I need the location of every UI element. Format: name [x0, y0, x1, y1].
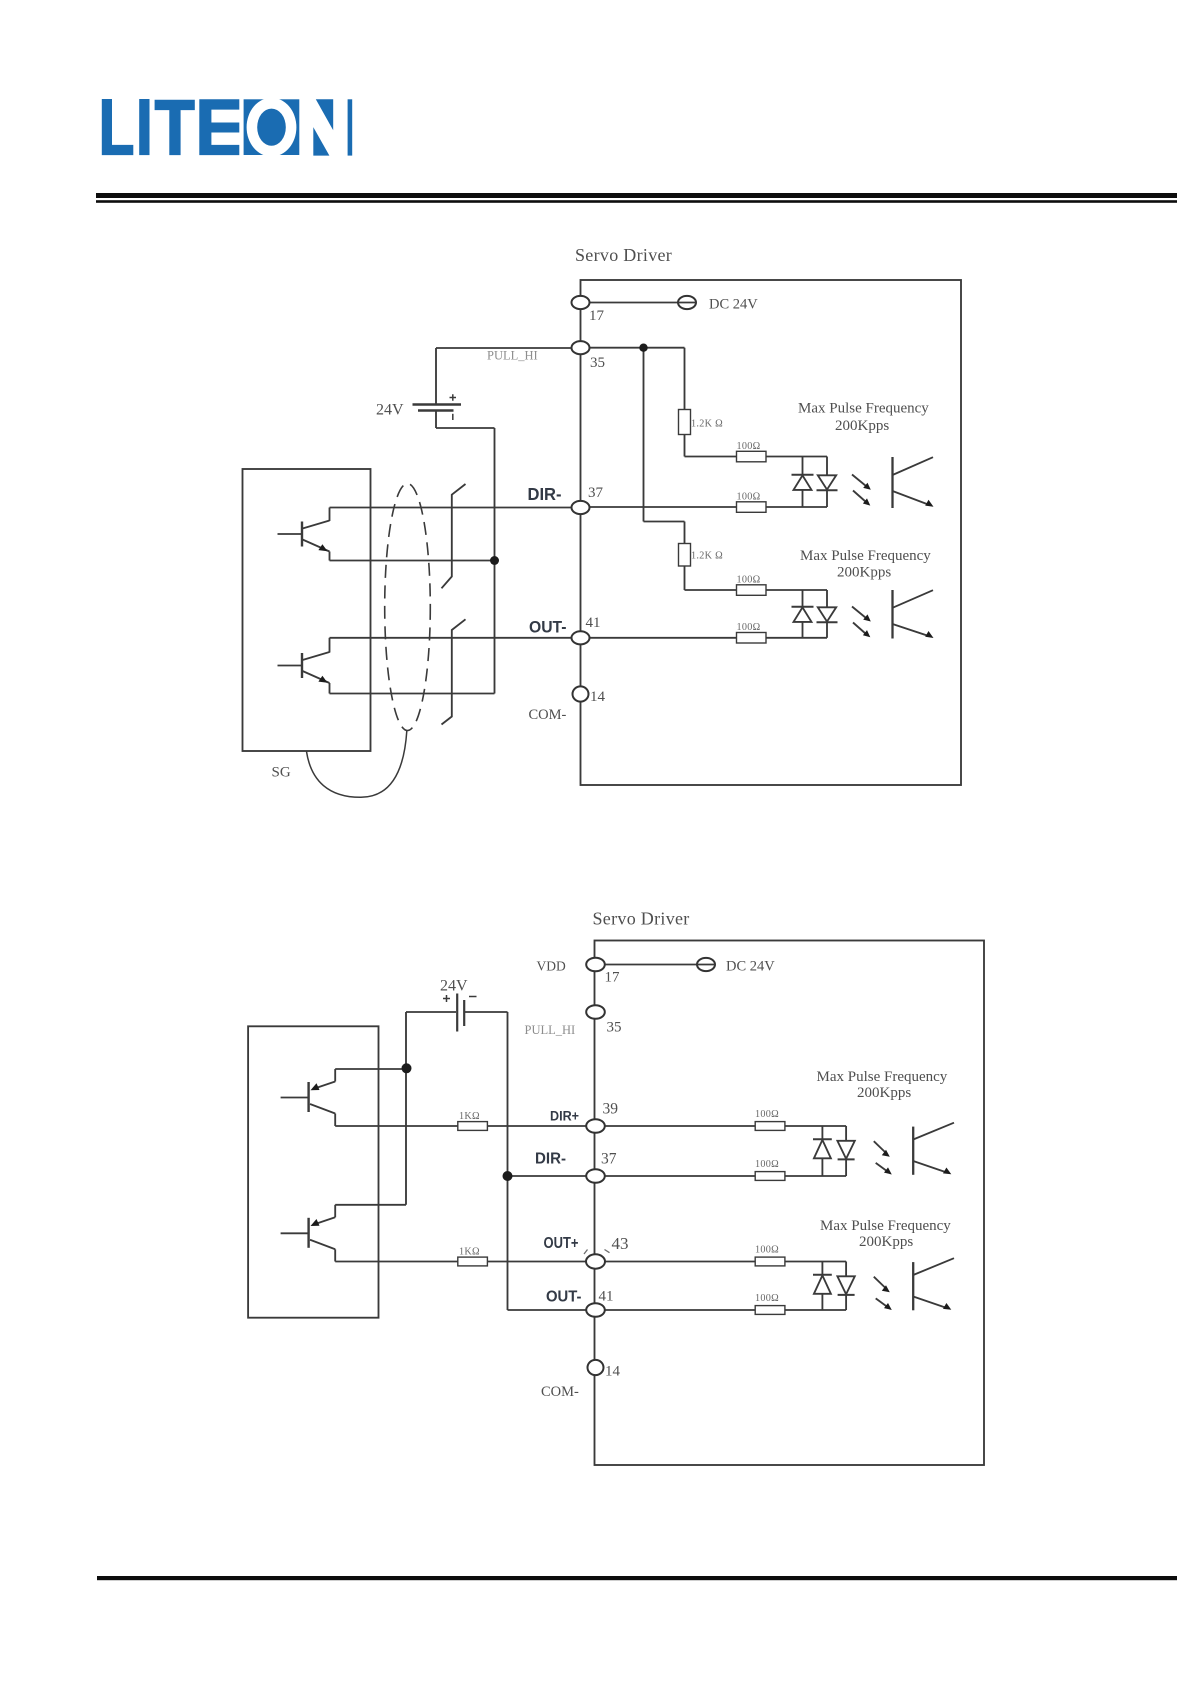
- svg-text:24V: 24V: [376, 402, 404, 419]
- wire P1 collector to R7: [335, 1125, 458, 1127]
- svg-text:DIR-: DIR-: [528, 484, 562, 504]
- svg-text:35: 35: [590, 355, 605, 371]
- svg-text:100Ω: 100Ω: [755, 1109, 779, 1120]
- wire OUT- right: [590, 637, 737, 639]
- wire node35 branch down: [643, 348, 645, 522]
- battery 24V (bottom) short plate: [463, 1000, 465, 1026]
- DC 24V source symbol chord: [678, 302, 696, 304]
- header double rule: [96, 193, 1177, 198]
- wire battery - down: [435, 411, 437, 429]
- svg-text:41: 41: [586, 615, 601, 631]
- junction dot P1 emitter node: [402, 1063, 412, 1073]
- transistor P1 (source driver): [281, 1097, 309, 1099]
- wire R4 to corner: [684, 566, 686, 590]
- resistor R6 100Ω: [737, 633, 767, 644]
- terminal pin 35 (bottom): [586, 1005, 605, 1019]
- phototransistor U2: [891, 590, 893, 639]
- terminal pin 37: [572, 501, 590, 514]
- wire P2 collector to R8: [335, 1261, 458, 1263]
- resistor R1 1.2KΩ: [679, 410, 691, 435]
- svg-text:24V: 24V: [440, 978, 468, 995]
- resistor R9 100Ω: [755, 1122, 785, 1131]
- resistor R2 100Ω: [737, 451, 767, 462]
- svg-text:OUT-: OUT-: [529, 619, 567, 637]
- DC 24V source symbol: [678, 296, 696, 309]
- arrowhead U2 emitter: [925, 631, 933, 638]
- svg-text:Servo Driver: Servo Driver: [575, 245, 672, 265]
- terminal pin 39: [586, 1119, 605, 1133]
- transistor Q2 (NPN open collector): [278, 665, 303, 667]
- wire corner to R5: [685, 589, 737, 591]
- wire DIR- right: [590, 506, 737, 508]
- resistor R8 1KΩ: [458, 1257, 488, 1266]
- wire R8 to pin43: [487, 1261, 586, 1263]
- terminal pin 41: [572, 631, 590, 644]
- svg-text:41: 41: [599, 1289, 614, 1305]
- shield cable ellipse (dashed): [385, 484, 431, 731]
- arrowhead P2 emitter: [311, 1219, 320, 1226]
- svg-text:200Kpps: 200Kpps: [859, 1234, 913, 1250]
- shield drain wire to SG: [307, 731, 407, 797]
- logo letter T: [155, 100, 195, 155]
- wire pin43 right: [605, 1261, 755, 1263]
- servo driver box (top diagram): [581, 280, 962, 785]
- arrowhead U3 emitter: [943, 1168, 951, 1175]
- svg-text:100Ω: 100Ω: [737, 575, 761, 586]
- wire R3 to diodes: [766, 506, 827, 508]
- svg-text:Max Pulse Frequency: Max Pulse Frequency: [817, 1069, 948, 1085]
- junction dot battery return: [490, 556, 499, 565]
- terminal pin 17 (bottom): [586, 958, 605, 972]
- wire battery + vertical down: [405, 1012, 407, 1205]
- wire OUT- to pin41: [508, 1309, 587, 1311]
- wire pin35 right: [590, 347, 685, 349]
- twisted pair mark lower: [442, 619, 466, 724]
- wire branch corner: [644, 521, 685, 523]
- light arrows opto2: [852, 607, 866, 619]
- wire P1 emitter top: [335, 1068, 406, 1070]
- svg-text:1.2K Ω: 1.2K Ω: [691, 419, 723, 430]
- svg-text:35: 35: [607, 1020, 622, 1036]
- svg-text:PULL_HI: PULL_HI: [487, 349, 538, 363]
- wire emitter Q2: [330, 693, 495, 695]
- controller box (bottom diagram): [248, 1026, 378, 1317]
- optocoupler D4 LED pair left leg: [821, 1262, 823, 1275]
- logo O blue center: [257, 109, 286, 146]
- terminal pin 17: [572, 296, 590, 309]
- battery 24V (bottom) long plate: [456, 994, 458, 1032]
- resistor R10 100Ω: [755, 1172, 785, 1181]
- logo letter E: [199, 99, 239, 155]
- wire corner to R2: [685, 456, 737, 458]
- svg-text:OUT+: OUT+: [544, 1235, 579, 1252]
- wire emitter Q1: [330, 560, 495, 562]
- battery plus sign: [450, 394, 457, 401]
- terminal pin 35: [572, 341, 590, 354]
- logo letter L: [102, 99, 134, 155]
- servo driver box (bottom diagram): [595, 941, 985, 1466]
- footer rule: [97, 1576, 1177, 1580]
- wire R10 to diodes: [785, 1175, 846, 1177]
- battery minus tick: [452, 414, 454, 420]
- arrowheads opto4: [882, 1285, 890, 1292]
- light arrows opto4: [874, 1277, 886, 1288]
- svg-text:PULL_HI: PULL_HI: [525, 1023, 576, 1037]
- twisted pair mark upper: [442, 484, 466, 588]
- arrowhead Q2 emitter: [318, 676, 327, 683]
- svg-text:DC 24V: DC 24V: [709, 297, 758, 313]
- optocoupler D3 LED pair right leg: [845, 1126, 847, 1141]
- arrowhead P1 emitter: [311, 1083, 320, 1090]
- svg-text:1KΩ: 1KΩ: [459, 1111, 480, 1122]
- svg-text:OUT-: OUT-: [546, 1289, 582, 1306]
- resistor R4 1.2KΩ: [679, 544, 691, 567]
- svg-text:SG: SG: [272, 765, 291, 781]
- junction dot node PULL_HI: [639, 344, 647, 352]
- wire R9 to diodes: [785, 1125, 846, 1127]
- svg-text:1.2K Ω: 1.2K Ω: [691, 551, 723, 562]
- logo letter N: [316, 99, 333, 130]
- resistor R3 100Ω: [737, 502, 767, 513]
- svg-text:Max Pulse Frequency: Max Pulse Frequency: [798, 401, 929, 417]
- svg-text:DIR+: DIR+: [550, 1109, 579, 1124]
- wire DIR- left: [330, 507, 572, 509]
- arrowheads opto2: [863, 614, 871, 621]
- logo letter N right bar: [348, 99, 353, 155]
- arrowhead Q1 emitter: [318, 544, 327, 551]
- svg-text:43: 43: [612, 1234, 629, 1253]
- logo letter O block: [244, 99, 300, 155]
- wire pin17b to DC24V: [605, 964, 697, 966]
- svg-text:200Kpps: 200Kpps: [835, 418, 889, 434]
- svg-text:39: 39: [603, 1101, 619, 1118]
- terminal pin 14 (bottom): [588, 1360, 604, 1375]
- wire down to R4: [684, 522, 686, 544]
- svg-text:COM-: COM-: [529, 707, 567, 723]
- battery 24V (top) short plate: [418, 409, 454, 411]
- wire R2 to diodes: [766, 456, 827, 458]
- resistor R12 100Ω: [755, 1306, 785, 1315]
- wire pin39 right: [605, 1125, 755, 1127]
- logo O white ring: [247, 98, 297, 157]
- svg-text:14: 14: [590, 689, 606, 705]
- wire pin37 right: [605, 1175, 755, 1177]
- svg-text:DIR-: DIR-: [535, 1151, 566, 1168]
- optocoupler D3 LED pair left leg: [821, 1126, 823, 1139]
- wire pin41 right: [605, 1309, 755, 1311]
- optocoupler D1 LED pair right leg: [826, 457, 828, 476]
- wire R1 to corner: [684, 435, 686, 457]
- wire R11 to diodes: [785, 1261, 846, 1263]
- DC 24V source symbol chord (bottom): [697, 964, 715, 966]
- wire battery - right: [436, 427, 495, 429]
- wire OUT- left: [330, 637, 572, 639]
- wire battery - vertical down: [507, 1012, 509, 1310]
- controller box (top diagram): [243, 469, 371, 751]
- light arrows opto1: [852, 475, 866, 487]
- svg-text:37: 37: [588, 485, 604, 501]
- optocoupler D4 LED pair right leg: [845, 1262, 847, 1277]
- svg-text:200Kpps: 200Kpps: [837, 565, 891, 581]
- arrowheads opto3: [882, 1150, 890, 1157]
- phototransistor U1: [891, 457, 893, 508]
- phototransistor U3: [912, 1127, 914, 1175]
- svg-text:Max Pulse Frequency: Max Pulse Frequency: [800, 548, 931, 564]
- battery plus sign (bottom): [443, 995, 450, 1002]
- svg-text:17: 17: [605, 970, 621, 986]
- svg-text:17: 17: [589, 308, 605, 324]
- wire P2 emitter top: [335, 1204, 406, 1206]
- svg-text:100Ω: 100Ω: [737, 492, 761, 503]
- wire R12 to diodes: [785, 1309, 846, 1311]
- DC 24V source symbol (bottom): [697, 958, 715, 971]
- optocoupler D2 LED pair left leg: [802, 590, 804, 607]
- stray tick marks near 43: [584, 1250, 610, 1255]
- wire R7 to pin39: [487, 1125, 586, 1127]
- arrowhead U1 emitter: [925, 500, 933, 507]
- arrowheads opto1: [863, 483, 871, 490]
- wire pin17 to DC24V: [590, 302, 679, 304]
- optocoupler D1 LED pair left leg: [802, 457, 804, 475]
- svg-text:200Kpps: 200Kpps: [857, 1085, 911, 1101]
- svg-text:DC 24V: DC 24V: [726, 959, 775, 975]
- wire R6 to diodes: [766, 637, 827, 639]
- svg-text:Servo Driver: Servo Driver: [593, 909, 690, 929]
- svg-text:100Ω: 100Ω: [755, 1245, 779, 1256]
- terminal pin 14: [573, 686, 589, 701]
- resistor R5 100Ω: [737, 585, 767, 596]
- wire PULL_HI down to battery +: [435, 348, 437, 404]
- LITEON logo: [102, 99, 352, 156]
- terminal pin 43: [586, 1254, 605, 1268]
- svg-text:VDD: VDD: [537, 959, 566, 974]
- phototransistor U4: [912, 1262, 914, 1310]
- battery minus sign (bottom): [469, 996, 477, 998]
- svg-text:14: 14: [605, 1364, 621, 1380]
- svg-text:37: 37: [601, 1151, 617, 1168]
- arrowhead U4 emitter: [943, 1303, 951, 1310]
- transistor Q1 (NPN open collector): [278, 533, 303, 535]
- transistor P2 (source driver): [281, 1232, 309, 1234]
- svg-text:COM-: COM-: [541, 1384, 579, 1400]
- resistor R11 100Ω: [755, 1257, 785, 1266]
- wire R5 to diodes: [766, 589, 827, 591]
- wire battery left: [406, 1011, 456, 1013]
- wire PULL_HI horizontal: [436, 347, 572, 349]
- wire battery return vertical: [494, 428, 496, 694]
- wire down to R1: [684, 348, 686, 410]
- svg-text:100Ω: 100Ω: [755, 1293, 779, 1304]
- svg-text:100Ω: 100Ω: [755, 1159, 779, 1170]
- svg-text:100Ω: 100Ω: [737, 441, 761, 452]
- svg-text:Max Pulse Frequency: Max Pulse Frequency: [820, 1218, 951, 1234]
- wire DIR- to pin37: [508, 1175, 587, 1177]
- logo letter I: [139, 99, 149, 155]
- battery 24V (top) long plate: [413, 403, 462, 405]
- svg-text:1KΩ: 1KΩ: [459, 1247, 480, 1258]
- resistor R7 1KΩ: [458, 1122, 488, 1131]
- light arrows opto3: [874, 1141, 886, 1152]
- terminal pin 37 (bottom): [586, 1169, 605, 1183]
- optocoupler D2 LED pair right leg: [826, 590, 828, 607]
- junction dot DIR- node: [503, 1171, 513, 1181]
- wire battery right: [465, 1011, 508, 1013]
- svg-text:100Ω: 100Ω: [737, 622, 761, 633]
- terminal pin 41 (bottom): [586, 1303, 605, 1317]
